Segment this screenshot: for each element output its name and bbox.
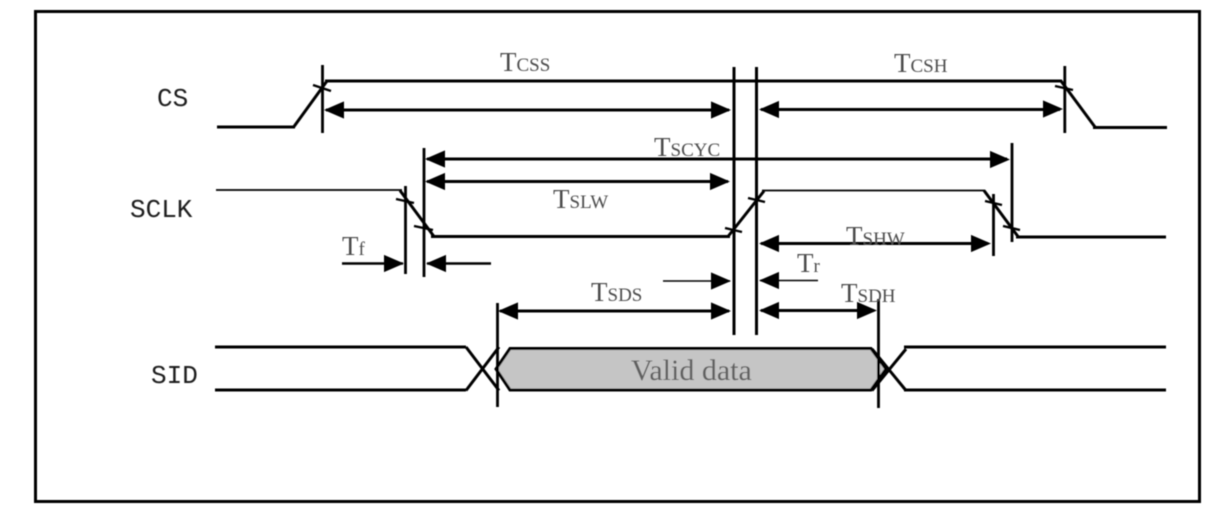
arrowhead TSLW right (710, 173, 730, 190)
arrowhead TSDH left (759, 302, 779, 319)
wire SID crossover right (872, 349, 906, 391)
wire SID bottom right (904, 389, 1166, 392)
wire CS high (325, 80, 1062, 83)
svg-text:SCLK: SCLK (130, 195, 193, 225)
svg-text:SID: SID (151, 361, 198, 391)
arrowhead TCSS right (711, 101, 731, 118)
dimension line TSDS (500, 310, 729, 313)
edge mark CS rise (313, 85, 331, 91)
edge mark SCLK fall-right top (985, 201, 1002, 205)
arrowhead Tf pointing right (384, 255, 404, 272)
wire CS falling edge (1061, 81, 1095, 127)
edge mark SCLK fall-left bottom (414, 226, 433, 230)
arrowhead Tr pointing right (711, 272, 731, 289)
edge mark CS fall (1055, 86, 1073, 90)
arrowhead TSHW right (971, 235, 991, 252)
arrowhead TCSS left (324, 101, 344, 118)
edge mark SCLK rise top (748, 198, 765, 202)
tick SCLK fall-right outer (1011, 143, 1014, 242)
dimension tail Tf left (342, 262, 403, 264)
dimension line TSHW (761, 242, 988, 245)
wire SID top left (215, 346, 466, 349)
arrowhead Tr pointing left (759, 272, 779, 289)
tick CS rise (321, 65, 324, 133)
edge mark SCLK fall-left top (396, 199, 414, 203)
arrowhead Tf pointing left (426, 255, 446, 272)
arrowhead TSCYC left (425, 150, 445, 167)
tick center right (755, 67, 758, 335)
tick SID right (877, 299, 880, 408)
dimension tail Tr right (760, 280, 818, 282)
arrowhead TCSH left (759, 101, 779, 118)
wire SCLK falling edge right (984, 191, 1018, 237)
wire SCLK high right (thin) (762, 190, 985, 192)
tick SID left (496, 303, 499, 407)
wire SID crossover left (466, 347, 499, 391)
edge mark SCLK rise bottom (725, 228, 742, 232)
tick SCLK fall-right inner (992, 194, 995, 256)
dimension line TSLW (427, 180, 728, 183)
svg-text:CS: CS (157, 84, 188, 114)
wire SCLK falling edge left (400, 191, 434, 237)
arrowhead TSDS right (711, 302, 731, 319)
edge mark SCLK fall-right bottom (1003, 226, 1020, 230)
tick center left (733, 67, 736, 335)
arrowhead TCSH right (1043, 100, 1063, 117)
svg-text:Valid data: Valid data (631, 354, 752, 387)
wire SCLK low left (431, 235, 730, 238)
arrowhead TSLW left (425, 173, 445, 190)
wire SCLK high left (thin) (216, 189, 402, 191)
dimension line TSCYC (427, 158, 1007, 161)
wire SID top right (904, 346, 1166, 349)
wire CS low left (217, 126, 295, 129)
dimension tail Tf right (427, 262, 491, 264)
wire SID bottom left (215, 389, 466, 392)
dimension tail Tr left (663, 280, 730, 282)
wire SCLK rising edge center (728, 191, 764, 237)
dimension line TSDH (761, 309, 874, 312)
tick SCLK fall-left inner (404, 186, 407, 274)
tick CS fall (1063, 66, 1066, 133)
arrowhead TSDS left (498, 302, 518, 319)
arrowhead TSDH right (857, 302, 877, 319)
wire CS low right (1093, 126, 1167, 129)
dimension line TCSS (326, 109, 729, 112)
arrowhead TSHW left (759, 235, 779, 252)
wire CS rising edge (294, 81, 327, 127)
valid data bus box (496, 349, 886, 391)
arrowhead TSCYC right (990, 151, 1010, 168)
tick SCLK fall-left outer (423, 148, 426, 277)
dimension line TCSH (761, 108, 1060, 111)
wire SCLK low right (1016, 236, 1166, 239)
